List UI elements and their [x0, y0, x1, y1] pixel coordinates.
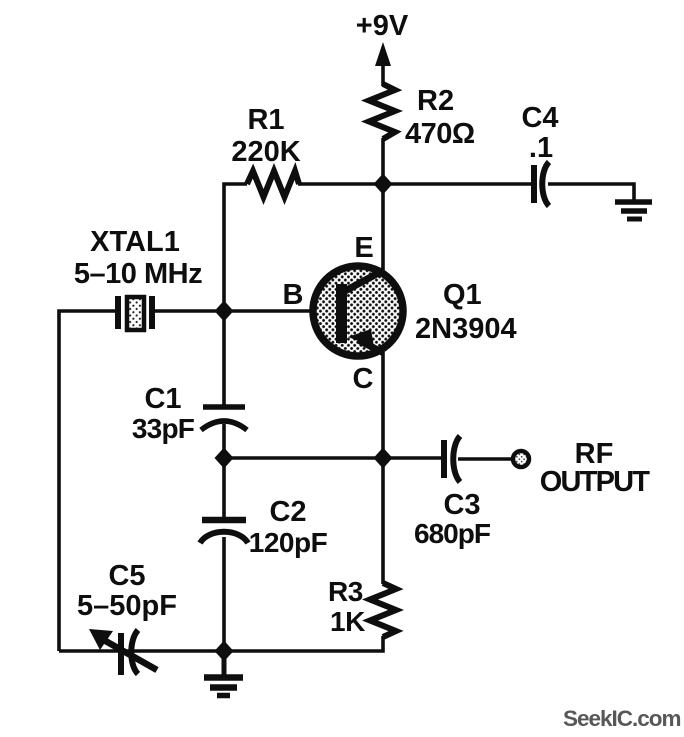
label C (collector) — [353, 363, 374, 395]
svg-text:5–10 MHz: 5–10 MHz — [74, 258, 202, 290]
crystal XTAL1 — [118, 296, 152, 330]
resistor R1 — [247, 171, 299, 197]
label B (base) — [283, 279, 304, 311]
value 220K — [231, 136, 300, 168]
svg-text:470Ω: 470Ω — [405, 118, 475, 150]
variable capacitor C5 — [89, 629, 157, 675]
svg-text:C4: C4 — [521, 102, 558, 134]
wire R2 bottom to node A — [381, 138, 385, 184]
value .1 — [529, 132, 553, 164]
node B junction dot — [215, 301, 234, 322]
value 2N3904 — [415, 313, 517, 345]
wire node C down to R3 — [381, 458, 385, 584]
capacitor C3 — [444, 436, 460, 482]
svg-text:XTAL1: XTAL1 — [90, 226, 180, 258]
label C4 — [521, 102, 558, 134]
value 33pF — [132, 413, 195, 444]
svg-text:680pF: 680pF — [414, 518, 491, 549]
watermark SeekIC.com — [563, 706, 681, 731]
label R2 — [417, 85, 454, 117]
wire node B to transistor base — [224, 309, 338, 313]
RF output terminal — [513, 451, 529, 467]
resistor R3 — [370, 583, 396, 637]
wire node B down to C1 — [222, 311, 226, 407]
capacitor C4 — [534, 162, 549, 206]
label XTAL1 — [90, 226, 180, 258]
svg-text:R2: R2 — [417, 85, 454, 117]
wire node A to C4 — [383, 182, 534, 186]
label R3 — [328, 576, 363, 607]
svg-text:5–50pF: 5–50pF — [77, 590, 177, 622]
wire bottom rail node E to C5 — [59, 649, 224, 653]
+9V arrow — [375, 42, 391, 86]
svg-text:120pF: 120pF — [249, 527, 328, 558]
node C junction dot — [374, 448, 393, 469]
capacitor C1 — [201, 407, 247, 430]
wire C3 to output terminal — [458, 457, 513, 461]
wire node D to node C — [224, 456, 383, 460]
svg-text:C3: C3 — [443, 489, 480, 521]
label R1 — [247, 104, 284, 136]
value 680pF — [414, 518, 491, 549]
label C1 — [144, 383, 181, 415]
transistor Q1 — [313, 266, 403, 356]
svg-text:220K: 220K — [231, 136, 300, 168]
resistor R2 — [369, 84, 395, 139]
label E (emitter) — [354, 232, 373, 264]
value 470ohm — [405, 118, 475, 150]
svg-text:C5: C5 — [108, 560, 145, 592]
wire C1 to node D — [222, 424, 226, 458]
wire node D down to C2 — [222, 458, 226, 520]
svg-text:SeekIC.com: SeekIC.com — [563, 706, 681, 731]
svg-text:C1: C1 — [144, 383, 181, 415]
svg-text:.1: .1 — [529, 132, 553, 164]
capacitor C2 — [200, 520, 248, 543]
ground (top right) — [615, 202, 652, 219]
+9V power label — [356, 10, 409, 42]
wire R3 bottom corner to bottom rail — [224, 636, 383, 651]
svg-text:Q1: Q1 — [443, 279, 482, 311]
label C2 — [269, 496, 306, 528]
value 5-10 MHz — [74, 258, 202, 290]
wire left of XTAL1 with corner down — [59, 311, 118, 651]
ground (bottom center) — [204, 651, 243, 696]
wire node C to C3 — [383, 456, 444, 460]
svg-text:E: E — [354, 232, 373, 264]
label OUTPUT — [540, 466, 651, 498]
label C3 — [443, 489, 480, 521]
wire collector to node C — [381, 352, 385, 459]
svg-text:C2: C2 — [269, 496, 306, 528]
wire C2 to node E — [222, 537, 226, 651]
wire R1 left lead and corner down to crystal node — [224, 184, 247, 311]
node E junction dot — [215, 641, 234, 662]
label RF — [575, 438, 614, 470]
svg-text:B: B — [283, 279, 304, 311]
svg-text:2N3904: 2N3904 — [415, 313, 517, 345]
svg-text:1K: 1K — [330, 606, 365, 637]
value 120pF — [249, 527, 328, 558]
svg-text:R3: R3 — [328, 576, 363, 607]
label Q1 — [443, 279, 482, 311]
label C5 — [108, 560, 145, 592]
svg-text:+9V: +9V — [356, 10, 409, 42]
value 5-50pF — [77, 590, 177, 622]
wire R1 right lead to node A — [298, 182, 383, 186]
svg-text:OUTPUT: OUTPUT — [540, 466, 651, 498]
wire XTAL1 to node B — [152, 309, 224, 313]
node A junction dot — [374, 174, 393, 195]
wire emitter to node A — [381, 184, 385, 272]
node D junction dot — [215, 448, 234, 469]
wire C4 to ground — [548, 184, 634, 201]
svg-text:C: C — [353, 363, 374, 395]
svg-text:33pF: 33pF — [132, 413, 195, 444]
svg-text:R1: R1 — [247, 104, 284, 136]
value 1K — [330, 606, 365, 637]
